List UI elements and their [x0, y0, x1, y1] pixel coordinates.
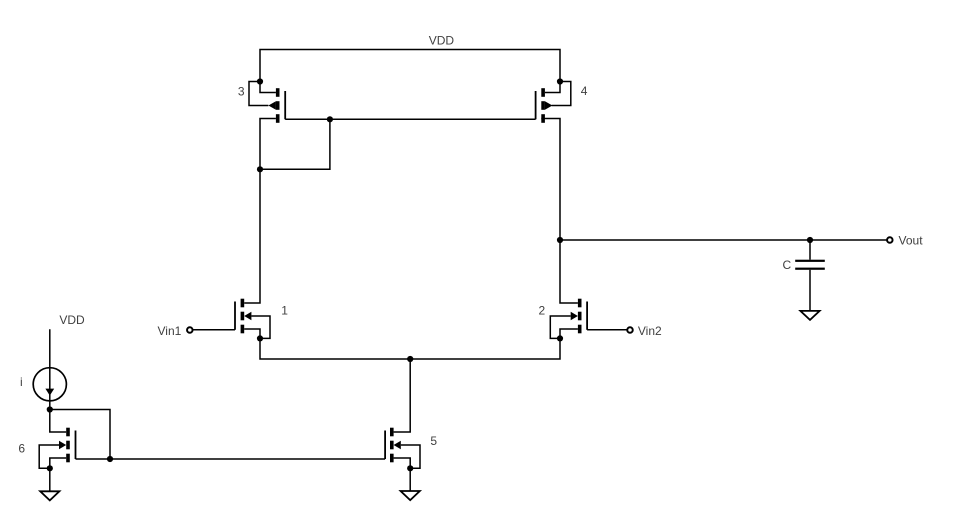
svg-text:2: 2: [539, 304, 546, 318]
transistor 4 (PMOS mirror output): [536, 88, 553, 123]
ground (below M6): [40, 491, 59, 500]
terminal Vin2: [627, 327, 633, 333]
wire gate bus M6-M5: [76, 458, 386, 460]
svg-text:VDD: VDD: [429, 33, 455, 47]
node M1 source-bulk junction: [257, 335, 263, 341]
wire left rail M3 drain to M1 drain: [244, 119, 276, 304]
svg-text:C: C: [783, 258, 792, 272]
node gate bus junction: [327, 116, 333, 122]
node gate bus junction (bottom): [107, 456, 113, 462]
ground (below capacitor): [800, 311, 819, 320]
capacitor C: [795, 260, 825, 270]
wire M6 source lead: [50, 458, 66, 468]
wire M3 bulk tie to VDD: [249, 82, 268, 106]
wire tail node connecting M1 and M2 sources: [260, 338, 560, 359]
svg-text:3: 3: [238, 85, 245, 99]
wire capacitor top lead: [809, 240, 811, 260]
node M2 source-bulk junction: [557, 335, 563, 341]
node left rail junction: [257, 166, 263, 172]
wire M6 bulk to source: [39, 445, 59, 468]
svg-text:5: 5: [430, 434, 437, 448]
svg-text:Vin2: Vin2: [638, 324, 662, 338]
terminal Vout: [887, 237, 893, 243]
node output junction: [557, 237, 563, 243]
wire M5 source to ground: [409, 468, 411, 491]
wire M2 source lead: [560, 329, 578, 338]
wire gate bus M3-M4: [285, 118, 535, 120]
wire M2 gate lead: [587, 329, 627, 331]
wire right rail M4 drain to M2 drain: [541, 119, 578, 304]
wire M5 source lead: [394, 458, 411, 468]
terminal Vin1: [187, 327, 193, 333]
svg-text:1: 1: [281, 304, 288, 318]
node tail junction: [407, 356, 413, 362]
wire output node to Vout terminal: [560, 239, 887, 241]
current source i: [33, 368, 66, 401]
transistor 1 (NMOS diff pair left): [235, 299, 251, 334]
wire tail to M5 drain: [394, 359, 411, 432]
wire M2 bulk to source: [550, 316, 570, 338]
svg-text:4: 4: [581, 84, 588, 98]
svg-text:6: 6: [18, 442, 25, 456]
transistor 3 (PMOS mirror, diode-connected): [268, 88, 285, 123]
transistor 2 (NMOS diff pair right): [571, 299, 587, 334]
wire M1 bulk to source: [251, 316, 270, 338]
svg-text:VDD: VDD: [59, 313, 85, 327]
node M5 source-bulk junction: [407, 465, 413, 471]
wire M6 source to ground: [49, 468, 51, 491]
transistor 6 (NMOS mirror reference): [59, 428, 76, 463]
node M6 source-bulk junction: [47, 465, 53, 471]
node VDD-M3 junction: [257, 78, 263, 84]
wire M6 diode connection (drain to gate bus): [50, 410, 110, 460]
node capacitor tap junction: [807, 237, 813, 243]
wire diode connection M3 gate to drain: [260, 119, 330, 169]
wire M4 bulk tie to VDD: [552, 82, 571, 106]
svg-text:Vin1: Vin1: [157, 324, 181, 338]
node current source output junction: [47, 406, 53, 412]
transistor 5 (NMOS tail current sink): [385, 428, 401, 463]
wire VDD rail with drops to M3 source and M4 source: [260, 50, 560, 93]
svg-text:i: i: [20, 375, 23, 389]
wire VDD to current source to M6 drain: [50, 329, 66, 432]
wire capacitor bottom lead: [809, 270, 811, 311]
wire M1 source lead: [244, 329, 260, 338]
node VDD-M4 junction: [557, 78, 563, 84]
svg-text:Vout: Vout: [899, 234, 924, 248]
wire M5 bulk to source: [401, 445, 420, 468]
ground (below M5): [401, 491, 420, 500]
wire M1 gate lead: [193, 329, 235, 331]
